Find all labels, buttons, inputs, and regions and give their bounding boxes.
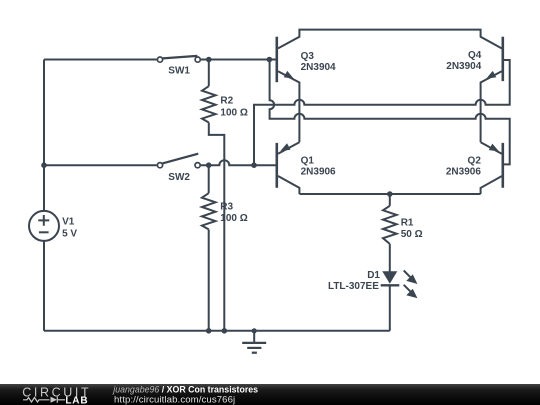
svg-text:R3: R3 [220,202,233,213]
resistor R3 [202,193,216,229]
wire: R3 bottom lead to ground rail [208,229,210,330]
transistor Q2 base bar [501,143,504,188]
wire: SW1 to Q3 base [201,59,276,61]
junction node: ground symbol [252,328,257,333]
ground bar 2 [247,347,261,349]
svg-text:Q4: Q4 [468,50,482,61]
wire: SW2 to Q1 base with hop over R2 column [201,160,276,165]
transistor Q3 emitter diagonal and vertical to Q1 [278,71,299,142]
svg-text:100 Ω: 100 Ω [220,108,247,119]
junction node: SW2 row / cross wire [251,162,257,168]
wire: left rail bottom (V1 to ground rail) [43,241,45,331]
junction node: left rail / SW2 row [41,162,47,168]
logo diode triangle [51,397,58,403]
transistor Q4 emitter diagonal and vertical to Q2 [481,71,502,142]
wire: D1 cathode to ground rail [389,285,391,331]
ground stem [253,331,255,343]
switch SW1 terminal circles [157,57,162,62]
voltage source V1 circle [29,211,59,241]
svg-text:2N3906: 2N3906 [446,166,481,177]
svg-text:R2: R2 [220,96,233,107]
wire: top rail with Q3/Q4 collector diagonals [278,30,502,49]
wire: SW2 node vertical up then cross wire to Q4 base (y=104) with hops [254,60,510,165]
svg-text:http://circuitlab.com/cus766j: http://circuitlab.com/cus766j [114,395,235,405]
resistor R1 [383,206,397,244]
wire: mid rail Q1-Q2 collectors [299,193,480,195]
V1 minus sign [39,231,49,233]
junction node: R2 column / ground rail [222,328,228,334]
svg-text:LTL-307EE: LTL-307EE [328,281,379,292]
svg-text:Q1: Q1 [301,155,315,166]
ground bar 3 [252,352,257,354]
wire: R1 to D1 [389,244,391,272]
Q1 emitter arrowhead [280,143,290,151]
wire: R1 top lead [389,194,391,206]
wire: left rail top (to V1) [43,60,45,212]
LED D1 triangle [382,271,397,284]
LED D1 cathode bar [381,284,400,286]
svg-text:SW2: SW2 [168,172,190,183]
svg-text:2N3904: 2N3904 [301,62,336,73]
wire: SW1 row left segment [44,59,157,61]
V1 plus sign [38,215,49,226]
footer banner [0,384,540,405]
transistor Q1 collector diagonal [278,176,299,194]
switch SW1 lever [163,56,198,59]
svg-text:Q3: Q3 [301,51,315,62]
switch SW2 terminal circles [157,163,162,168]
ground bar 1 [242,342,266,344]
transistor Q2 emitter diagonal [481,142,502,154]
Q3 emitter arrowhead [284,71,294,79]
svg-text:SW1: SW1 [168,66,190,77]
transistor Q1 base bar [275,143,278,188]
Q2 emitter arrowhead [489,144,499,152]
switch SW2 lever [162,154,198,164]
transistor Q2 collector diagonal [481,176,502,194]
svg-text:5 V: 5 V [62,229,77,240]
wire: R3 top lead [208,165,210,193]
junction node: SW1/R2 [206,57,212,63]
wire: R2 bottom lead with jog right, down to ground rail [209,123,225,331]
junction node: SW2/R3 [206,162,212,168]
wire: R2 top lead [208,60,210,87]
svg-text:D1: D1 [367,270,380,281]
svg-text:100 Ω: 100 Ω [220,213,247,224]
junction node: R3 / ground rail [206,328,212,334]
svg-text:Q2: Q2 [468,155,482,166]
junction node: mid rail / R1 [387,191,393,197]
wire: SW2 row left segment [44,164,157,166]
svg-text:juangabe96 / XOR Con transisto: juangabe96 / XOR Con transistores [112,385,258,395]
Q4 emitter arrowhead [486,71,496,79]
svg-text:2N3906: 2N3906 [301,167,336,178]
svg-text:R1: R1 [401,218,414,229]
junction node: SW1/Q3 base [267,57,273,63]
logo resistor zigzag and diode [23,397,65,403]
transistor Q4 base bar [501,37,504,81]
wire: Q3 base vertical then cross wire to Q2 base (y=118.3) with hops [270,60,510,165]
svg-text:2N3904: 2N3904 [446,61,481,72]
svg-text:LAB: LAB [65,395,88,405]
wire: bottom ground rail [44,330,390,332]
resistor R2 [202,86,216,122]
transistor Q1 emitter diagonal [278,142,299,154]
LED D1 light arrow 2 [404,285,412,293]
transistor Q3 base bar [275,37,278,82]
LED D1 light arrow 1 [404,271,416,297]
svg-text:50 Ω: 50 Ω [401,229,423,240]
svg-text:V1: V1 [62,217,75,228]
